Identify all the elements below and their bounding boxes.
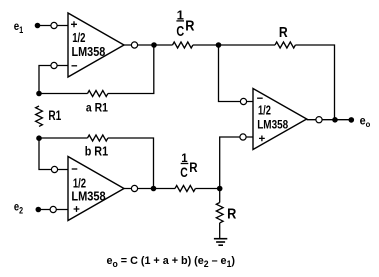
svg-text:LM358: LM358 xyxy=(257,118,288,132)
resistor 1/C R lower zigzag xyxy=(175,186,195,192)
ground xyxy=(214,239,227,246)
op-amp U1 xyxy=(68,13,124,77)
resistor aR1 zigzag xyxy=(88,91,108,97)
wire U1 - input to node A xyxy=(39,66,68,94)
output open circle U3 xyxy=(316,117,322,123)
node B junction dot xyxy=(36,135,42,141)
svg-text:e2: e2 xyxy=(14,199,23,215)
wire node C down to op-amp U3 - input xyxy=(219,45,254,102)
input open circle U2 + xyxy=(50,206,56,212)
resistor R1 zigzag xyxy=(36,106,43,126)
resistor R upper zigzag xyxy=(275,42,295,48)
wire U1 output to 1/C R resistor xyxy=(124,44,173,46)
output open circle U1 xyxy=(131,42,137,48)
node U1 output junction dot xyxy=(151,42,157,48)
svg-text:C: C xyxy=(176,24,184,40)
node C junction dot xyxy=(216,42,222,48)
svg-text:R: R xyxy=(227,206,237,222)
svg-text:b R1: b R1 xyxy=(85,145,108,159)
op-amp U3 xyxy=(253,89,307,150)
wire e1 input to op-amp U1 + input xyxy=(38,25,69,27)
svg-text:e1: e1 xyxy=(14,19,23,35)
wire node D down to resistor R xyxy=(219,189,221,203)
wire node B to b R1 xyxy=(39,137,88,139)
input open circle U1 - xyxy=(51,62,57,68)
label 1/C R upper xyxy=(176,8,194,41)
wire U2 output to lower 1/C R xyxy=(124,188,175,190)
op-amp U2 xyxy=(68,157,124,221)
node A junction dot xyxy=(36,91,42,97)
label 1/C R lower xyxy=(180,153,198,180)
wire resistor R to ground xyxy=(219,223,221,239)
wire node B to op-amp U2 - input xyxy=(39,139,68,170)
wire U3 output to e0 terminal xyxy=(307,119,352,121)
input open circle U3 + xyxy=(240,134,246,140)
output open circle U2 xyxy=(131,185,137,191)
svg-text:1/2: 1/2 xyxy=(72,30,85,45)
node output junction dot xyxy=(332,117,338,123)
node e2 terminal dot xyxy=(36,207,42,213)
wire R to output junction xyxy=(295,45,334,120)
input open circle U2 - xyxy=(51,166,57,172)
wire a R1 to U1 output junction xyxy=(108,45,154,94)
wire 1/C R to node C and to R xyxy=(193,44,275,46)
node e0 terminal dot xyxy=(349,117,355,123)
node D junction dot xyxy=(217,186,223,192)
wire e2 input to op-amp U2 + input xyxy=(38,209,68,211)
svg-text:LM358: LM358 xyxy=(72,45,106,59)
svg-text:eo: eo xyxy=(360,114,371,130)
svg-text:R: R xyxy=(189,160,198,175)
svg-text:1/2: 1/2 xyxy=(258,103,271,118)
svg-text:R1: R1 xyxy=(48,108,61,123)
node U2 output junction dot xyxy=(151,186,157,192)
wire b R1 to U2 output junction xyxy=(108,138,154,189)
svg-text:R: R xyxy=(279,25,288,41)
wire node D up to op-amp U3 + input xyxy=(220,137,253,189)
svg-text:a R1: a R1 xyxy=(86,101,108,115)
input open circle U3 - xyxy=(240,98,246,104)
svg-text:LM358: LM358 xyxy=(71,189,105,203)
resistor 1/C R upper zigzag xyxy=(173,42,193,48)
wire lower 1/C R to node D xyxy=(195,188,219,190)
node e1 terminal dot xyxy=(35,23,41,29)
svg-text:C: C xyxy=(180,164,188,180)
wire node A to a R1 xyxy=(39,93,88,95)
input open circle U1 + xyxy=(51,22,57,28)
svg-text:R: R xyxy=(185,17,194,34)
resistor R lower zigzag xyxy=(216,203,223,223)
svg-text:eo = C (1 + a + b) (e2 – e1): eo = C (1 + a + b) (e2 – e1) xyxy=(107,255,236,269)
resistor bR1 zigzag xyxy=(88,135,108,141)
